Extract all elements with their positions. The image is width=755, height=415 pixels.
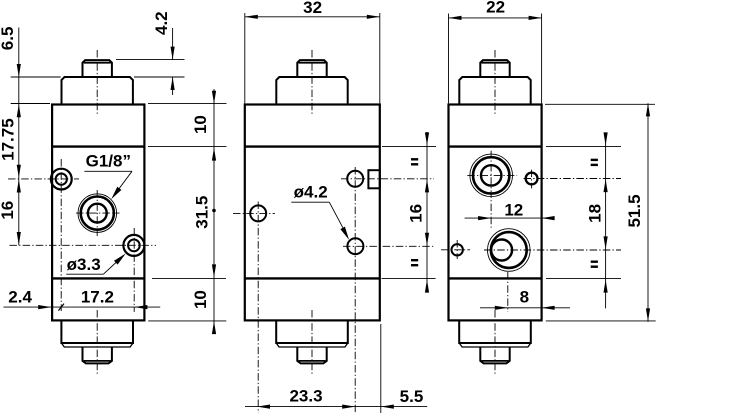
svg-text:ø4.2: ø4.2: [294, 182, 328, 201]
svg-text:31.5: 31.5: [193, 196, 212, 229]
svg-text:12: 12: [504, 201, 523, 220]
svg-text:8: 8: [520, 287, 529, 306]
svg-text:51.5: 51.5: [625, 194, 644, 227]
svg-text:5.5: 5.5: [400, 387, 424, 406]
svg-text:4.2: 4.2: [152, 11, 171, 35]
svg-text:16: 16: [407, 204, 426, 223]
svg-text:22: 22: [486, 0, 505, 16]
svg-text:17.75: 17.75: [0, 118, 17, 161]
svg-text:16: 16: [0, 201, 17, 220]
svg-text:6.5: 6.5: [0, 27, 17, 51]
svg-text:G1/8”: G1/8”: [86, 151, 131, 170]
svg-text:ø3.3: ø3.3: [67, 255, 101, 274]
svg-text:18: 18: [586, 204, 605, 223]
svg-text:10: 10: [191, 115, 210, 134]
svg-text:10: 10: [191, 290, 210, 309]
svg-text:2.4: 2.4: [8, 288, 32, 307]
svg-text:32: 32: [303, 0, 322, 17]
svg-text:17.2: 17.2: [81, 288, 114, 307]
svg-text:23.3: 23.3: [289, 386, 322, 405]
